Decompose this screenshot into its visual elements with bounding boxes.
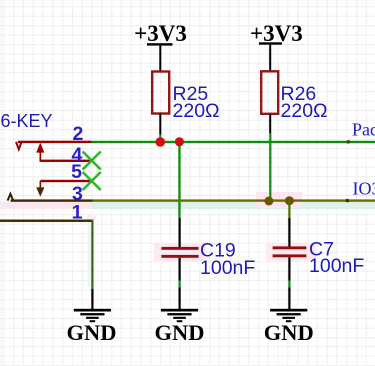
junction dot at R25/Pad	[156, 137, 166, 147]
capacitor C19 bottom lead	[179, 258, 181, 281]
svg-text:+3V3: +3V3	[250, 21, 303, 46]
svg-text:GND: GND	[264, 320, 314, 345]
svg-text:1: 1	[72, 202, 83, 224]
power flag +3V3 (right) bar	[259, 42, 282, 44]
wire C7 branch from IO3	[288, 201, 290, 218]
no-connect X on pin 5	[83, 172, 101, 190]
wire green down to C19	[178, 143, 180, 218]
key pin 3 wire (dark overlap)	[11, 199, 93, 201]
GND1 stem	[91, 289, 93, 309]
key pin 5 wire	[40, 180, 93, 182]
net highlight cyan along pin1 vertical wire	[88, 222, 92, 286]
wire green R25 lead to Pad net	[159, 135, 161, 142]
net highlight pink around olive junction dots	[256, 192, 302, 208]
no-connect X on pin 4	[83, 152, 101, 170]
svg-text:100nF: 100nF	[200, 257, 255, 279]
net highlight cyan strip under IO3 wire	[92, 202, 375, 210]
power flag +3V3 (right) stem	[269, 45, 271, 72]
wire Pad net horizontal	[91, 141, 375, 143]
capacitor C7 bottom plate	[273, 254, 307, 257]
wire green tip above GND1	[91, 286, 93, 290]
svg-text:220Ω: 220Ω	[173, 100, 220, 122]
GND3 stem	[288, 288, 290, 310]
net highlight pink at pin1 wire corner	[87, 215, 96, 220]
capacitor C19 top plate	[161, 247, 198, 250]
power flag +3V3 (left) stem	[159, 46, 161, 72]
svg-text:6-KEY: 6-KEY	[1, 111, 53, 131]
key pin 4 wire	[40, 160, 93, 162]
svg-text:100nF: 100nF	[309, 255, 364, 277]
net label anchor Pad	[347, 140, 351, 144]
capacitor C7 top plate	[273, 246, 307, 249]
ground GND1 bars	[74, 309, 111, 322]
junction dot R26/IO3	[264, 197, 273, 206]
wire green tip above GND2	[179, 281, 181, 288]
svg-text:5: 5	[71, 161, 82, 183]
wire pin1 vertical to GND	[91, 220, 93, 287]
resistor R26 bottom lead	[269, 114, 271, 133]
key pin 1 wire	[0, 220, 94, 223]
wire green tip above GND3	[288, 281, 290, 288]
ground GND2 bars	[161, 309, 198, 322]
capacitor C19 top lead	[179, 218, 181, 247]
resistor R25 bottom lead	[159, 114, 161, 135]
key actuator up arrow	[40, 151, 42, 162]
GND2 stem	[179, 288, 181, 310]
svg-text:IO3: IO3	[353, 179, 375, 199]
svg-text:+3V3: +3V3	[134, 21, 187, 46]
junction dot C7/IO3	[285, 196, 294, 205]
key actuator down arrow	[40, 181, 42, 188]
key pin 2 contact chevron	[16, 142, 22, 149]
net highlight pink strip under pin3 wire	[0, 202, 92, 210]
capacitor C7 top lead	[288, 218, 290, 247]
svg-text:GND: GND	[67, 320, 117, 345]
junction dot at C19 branch/Pad	[175, 137, 184, 146]
capacitor C7 bottom lead	[288, 257, 290, 280]
wire IO3 net horizontal	[93, 199, 375, 201]
power flag +3V3 (left) bar	[147, 43, 173, 45]
resistor R26 body	[261, 71, 278, 114]
key pin 2 wire	[18, 141, 92, 143]
key pin 3 contact chevron	[8, 194, 14, 201]
net highlight pink around C7 plates	[266, 243, 316, 261]
svg-text:2: 2	[72, 123, 83, 145]
resistor R25 body	[152, 72, 169, 114]
net label anchor IO3	[346, 199, 350, 203]
wire green R26 lead down to IO3 net	[269, 133, 271, 201]
svg-text:GND: GND	[155, 320, 205, 345]
svg-text:Pad: Pad	[352, 120, 375, 140]
capacitor C19 bottom plate	[161, 255, 198, 258]
net highlight pink around C19 plates	[154, 244, 205, 262]
ground GND3 bars	[270, 309, 307, 322]
svg-text:220Ω: 220Ω	[281, 100, 328, 122]
